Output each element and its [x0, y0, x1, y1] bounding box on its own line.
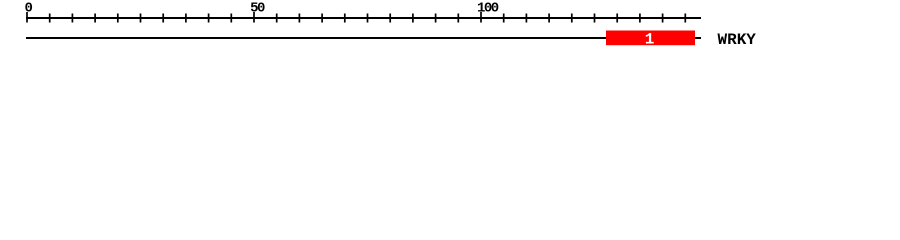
protein domain diagram: [0, 0, 900, 58]
ruler tick 45 (minor): [230, 14, 232, 23]
ruler tick 145 (minor): [684, 14, 686, 23]
svg-text:50: 50: [250, 0, 265, 16]
ruler tick 125 (minor): [594, 14, 596, 23]
ruler tick 40 (minor): [208, 14, 210, 23]
background: [0, 0, 900, 58]
ruler tick 10 (minor): [72, 14, 74, 23]
ruler tick 100 (major): [480, 12, 482, 23]
ruler tick 5 (minor): [49, 14, 51, 23]
ruler tick 130 (minor): [616, 14, 618, 23]
svg-text:WRKY: WRKY: [718, 31, 757, 49]
ruler tick 110 (minor): [526, 14, 528, 23]
ruler tick 135 (minor): [639, 14, 641, 23]
ruler tick 115 (minor): [548, 14, 550, 23]
ruler tick 105 (minor): [503, 14, 505, 23]
ruler tick 0 (major): [26, 12, 28, 23]
ruler tick 50 (major): [253, 12, 255, 23]
ruler tick 35 (minor): [185, 14, 187, 23]
domain box 1 (WRKY), red: [606, 31, 695, 46]
ruler tick 90 (minor): [435, 14, 437, 23]
ruler tick 85 (minor): [412, 14, 414, 23]
ruler tick 75 (minor): [367, 14, 369, 23]
ruler tick 95 (minor): [457, 14, 459, 23]
ruler tick 120 (minor): [571, 14, 573, 23]
ruler tick 25 (minor): [140, 14, 142, 23]
ruler tick 20 (minor): [117, 14, 119, 23]
ruler tick 30 (minor): [162, 14, 164, 23]
ruler tick 70 (minor): [344, 14, 346, 23]
ruler tick 65 (minor): [321, 14, 323, 23]
ruler tick 80 (minor): [389, 14, 391, 23]
svg-text:1: 1: [645, 31, 655, 49]
ruler tick 15 (minor): [94, 14, 96, 23]
protein sequence line: [26, 37, 701, 39]
svg-text:0: 0: [25, 0, 33, 16]
ruler tick 55 (minor): [276, 14, 278, 23]
ruler tick 60 (minor): [299, 14, 301, 23]
ruler tick 140 (minor): [662, 14, 664, 23]
ruler axis line: [26, 17, 701, 19]
